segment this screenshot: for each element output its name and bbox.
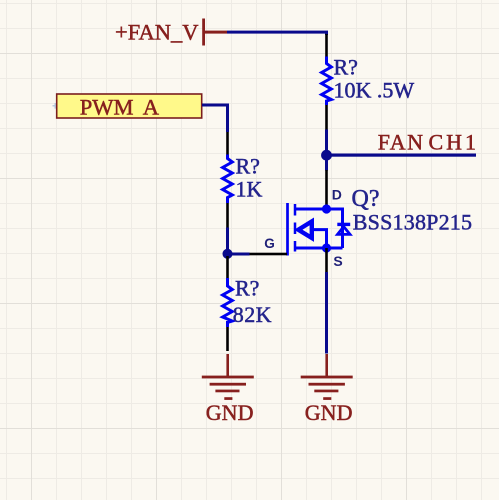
wire right vertical upper — [325, 31, 328, 35]
source stub — [296, 247, 343, 250]
wire left vertical to node — [226, 228, 229, 254]
wire FAN_CH1 horizontal — [327, 154, 477, 157]
drain internal junction — [322, 204, 331, 213]
svg-text:G: G — [264, 236, 275, 251]
svg-text:1K: 1K — [236, 176, 263, 201]
port PWM A connection marker — [53, 103, 59, 109]
body diode triangle — [338, 227, 351, 235]
svg-text:R?: R? — [334, 55, 358, 80]
wire left vertical upper — [226, 104, 229, 133]
body connection — [312, 230, 327, 248]
gate bar — [286, 203, 289, 256]
resistor R? (1K) lead bottom — [226, 198, 229, 203]
svg-text:GND: GND — [206, 400, 254, 425]
channel dashed bar — [294, 204, 297, 252]
resistor R? (1K) pin 2 — [226, 203, 229, 228]
resistor R? (82K) lead bottom — [226, 321, 229, 327]
resistor R? (10K .5W) lead bottom — [325, 100, 328, 105]
svg-text:R?: R? — [235, 276, 259, 301]
body diode cathode bar — [337, 223, 350, 226]
power port +FAN_V — [115, 19, 227, 46]
body arrow — [298, 221, 312, 238]
resistor R? (1K) pin 1 — [226, 132, 229, 155]
port PWM A — [57, 94, 202, 119]
resistor R? (82K) pin 2 — [226, 327, 229, 351]
svg-text:82K: 82K — [233, 302, 272, 327]
wire from port — [202, 104, 229, 107]
svg-text:+FAN_V: +FAN_V — [115, 20, 199, 45]
resistor R? (10K .5W) pin 2 — [325, 105, 328, 130]
svg-text:BSS138P215: BSS138P215 — [353, 209, 472, 234]
svg-text:R?: R? — [236, 154, 260, 179]
source internal junction — [322, 243, 331, 252]
transistor Q? source pin — [325, 248, 328, 272]
svg-text:CH1: CH1 — [429, 130, 480, 155]
transistor Q? body (MOSFET symbol) — [288, 203, 351, 256]
wire right vertical to node — [325, 130, 328, 171]
svg-text:10K .5W: 10K .5W — [334, 78, 415, 103]
node FAN_CH1 junction — [321, 150, 332, 161]
svg-text:PWM: PWM — [80, 94, 134, 119]
svg-text:D: D — [332, 186, 342, 202]
wire top horizontal — [227, 31, 328, 34]
resistor R? (82K) pin 1 — [226, 256, 229, 278]
svg-text:S: S — [333, 253, 342, 269]
resistor R? (82K) zigzag — [223, 278, 233, 324]
svg-text:Q?: Q? — [352, 186, 380, 212]
node gate junction — [223, 249, 233, 259]
ground GND right — [301, 354, 353, 425]
resistor R? (10K .5W) zigzag — [322, 57, 332, 105]
wire gate — [228, 253, 250, 256]
drain stub — [296, 209, 343, 248]
svg-text:A: A — [143, 94, 160, 119]
wire source to ground — [325, 272, 328, 354]
svg-text:GND: GND — [305, 400, 353, 425]
svg-text:FAN: FAN — [378, 130, 425, 155]
transistor Q? gate pin — [249, 253, 288, 256]
ground GND left — [202, 354, 254, 425]
transistor Q? drain pin — [325, 170, 328, 209]
resistor R? (10K .5W) pin 1 — [325, 34, 328, 57]
resistor R? (1K) zigzag — [223, 155, 233, 200]
